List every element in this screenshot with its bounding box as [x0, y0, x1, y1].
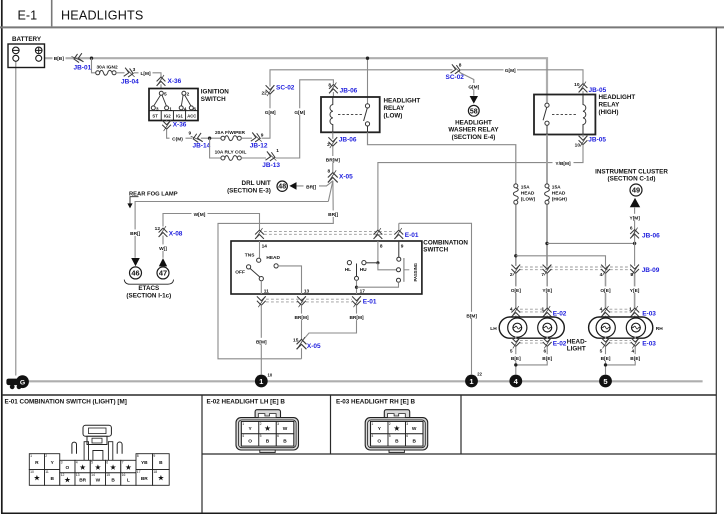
svg-text:(SECTION I-1c): (SECTION I-1c)	[126, 293, 171, 300]
wire label B[B]	[53, 55, 66, 63]
title underline	[0, 26, 724, 28]
wire into ignition switch	[160, 84, 162, 89]
svg-text:X-05: X-05	[307, 343, 321, 350]
connector JB-09 pin 2	[510, 264, 520, 278]
arrow from ETACS 47	[159, 258, 167, 266]
svg-text:ST: ST	[152, 113, 158, 118]
svg-text:B[E]: B[E]	[601, 356, 611, 362]
wire BR[M] terminal 13 to X-05	[301, 305, 303, 339]
relay K2 HEADLIGHT RELAY (HIGH)	[534, 94, 635, 134]
wire O[E] LH low	[515, 274, 517, 309]
svg-text:4: 4	[76, 461, 78, 465]
wire C(M)	[167, 129, 192, 138]
svg-text:4: 4	[600, 272, 603, 278]
wire label W[M]	[192, 210, 208, 218]
svg-text:IG2: IG2	[164, 113, 171, 118]
wire label G[M]	[264, 108, 278, 116]
wire label G[M]	[293, 108, 307, 116]
node high beam branch	[545, 242, 548, 245]
svg-text:E-02: E-02	[553, 340, 567, 347]
node instrument branch	[633, 242, 636, 245]
wire B[E] RH high to ground	[606, 346, 636, 365]
wire to SC-02 riser	[262, 94, 271, 138]
svg-text:E-03: E-03	[642, 310, 656, 317]
svg-text:58: 58	[470, 108, 478, 115]
svg-text:6: 6	[193, 106, 196, 112]
svg-text:G: G	[20, 379, 25, 386]
wire W[]	[162, 236, 164, 258]
svg-text:B: B	[111, 478, 115, 484]
svg-text:G[M]: G[M]	[468, 85, 479, 91]
svg-text:22: 22	[261, 90, 267, 96]
svg-text:PASSING: PASSING	[413, 263, 418, 282]
wire label B[M]	[254, 338, 269, 346]
wire low beam to RH lamp	[516, 256, 606, 266]
svg-text:R: R	[35, 460, 39, 466]
svg-text:JB-06: JB-06	[340, 88, 358, 95]
svg-text:14: 14	[262, 244, 268, 250]
wire branch to rear fog lamp feed	[328, 181, 333, 202]
relay K1 HEADLIGHT RELAY (LOW)	[321, 97, 420, 132]
svg-text:2: 2	[187, 92, 190, 98]
fuse 30A IGN2	[96, 65, 118, 76]
svg-text:(SECTION E-4): (SECTION E-4)	[452, 134, 496, 141]
svg-text:C(M): C(M)	[172, 137, 183, 143]
svg-text:(HIGH): (HIGH)	[599, 109, 619, 116]
svg-text:10: 10	[574, 82, 580, 88]
svg-text:BR[]: BR[]	[130, 231, 141, 237]
combination switch SW2	[231, 239, 468, 294]
svg-text:5: 5	[91, 461, 93, 465]
svg-text:JB-01: JB-01	[74, 65, 92, 72]
connector JB-04 pin 3	[121, 67, 139, 85]
svg-text:(HIGH): (HIGH)	[552, 197, 568, 203]
wire BR[] loop to combination switch	[218, 181, 333, 359]
wire Y[E] RH high	[634, 274, 636, 309]
svg-text:W: W	[96, 478, 101, 484]
svg-text:IG1: IG1	[176, 113, 183, 118]
svg-text:6: 6	[106, 461, 108, 465]
svg-text:E-03: E-03	[642, 340, 656, 347]
connector JB-01	[71, 53, 91, 71]
connector X-05 pin 15	[293, 337, 321, 350]
fuse 15A HEAD (LOW)	[513, 184, 535, 204]
connector SC-02 pin 22	[261, 84, 294, 96]
fuse 10A RLY COIL	[215, 150, 247, 161]
connector E-02 pin 5	[510, 337, 520, 354]
svg-text:10: 10	[268, 372, 273, 377]
svg-text:5: 5	[164, 92, 167, 98]
svg-text:4: 4	[632, 348, 635, 354]
wires into LH lamp	[515, 316, 517, 320]
svg-text:Y[E]: Y[E]	[630, 288, 640, 294]
arrow from instrument cluster	[630, 198, 640, 207]
battery ground wire	[15, 61, 17, 375]
svg-text:6: 6	[277, 434, 279, 438]
svg-text:15: 15	[106, 473, 110, 477]
connector E-01 terminal 8	[374, 228, 383, 239]
svg-text:9: 9	[401, 244, 404, 250]
off-sheet ref 49 instrument cluster	[595, 168, 668, 196]
svg-text:O[E]: O[E]	[600, 288, 611, 294]
svg-text:49: 49	[632, 186, 640, 195]
svg-text:IGNITION: IGNITION	[201, 89, 229, 96]
node: bus tap to ignition fuse	[90, 57, 93, 60]
wire to JB-13	[241, 157, 266, 159]
connector JB-09 pin 5	[630, 264, 660, 278]
off-sheet ref 48 DRL unit	[227, 180, 287, 194]
wire label G[M]	[467, 83, 481, 91]
svg-text:4: 4	[184, 106, 187, 112]
svg-text:20A F/WIPER: 20A F/WIPER	[215, 130, 245, 136]
wire L[M] to ignition switch	[134, 73, 161, 77]
svg-text:E-1: E-1	[18, 9, 38, 23]
left page border	[1, 0, 3, 513]
svg-text:12: 12	[155, 226, 161, 232]
arrow to ETACS 46	[131, 258, 140, 266]
wire label BR[M]	[348, 314, 366, 322]
svg-text:E-02 HEADLIGHT LH [E] B: E-02 HEADLIGHT LH [E] B	[207, 399, 286, 406]
wire into relay coil	[582, 91, 584, 95]
wire low relay output to fuse 15A HEAD(LOW)	[368, 132, 516, 183]
wire W[M] from X-08 to combination switch	[163, 214, 260, 230]
svg-text:RH: RH	[656, 326, 663, 332]
svg-text:O: O	[66, 465, 70, 471]
svg-text:B[E]: B[E]	[542, 356, 552, 362]
svg-text:(SECTION C-1d): (SECTION C-1d)	[608, 176, 656, 183]
node LH ground join	[514, 363, 517, 366]
wire Y[E] LH high	[546, 274, 548, 309]
svg-text:BATTERY: BATTERY	[12, 36, 42, 43]
wire high beam to instrument cluster branch	[547, 242, 635, 244]
fuse 20A F/WIPER	[215, 130, 245, 141]
rear fog lamp callout	[127, 191, 177, 208]
connector E-03 pin 5	[600, 337, 610, 354]
connector JB-06 pin 2 (lower)	[327, 137, 357, 149]
svg-text:X-08: X-08	[169, 231, 183, 238]
svg-text:COMBINATION: COMBINATION	[423, 239, 468, 246]
svg-text:(LOW): (LOW)	[384, 112, 403, 119]
svg-text:4: 4	[600, 306, 603, 312]
svg-text:17: 17	[137, 470, 141, 474]
wire label G[M]	[504, 67, 518, 75]
svg-text:HEADLIGHTS: HEADLIGHTS	[61, 9, 143, 23]
svg-text:15A: 15A	[521, 185, 530, 191]
wire G[M] to headlight relay (low) coil	[276, 80, 334, 158]
svg-text:W[M]: W[M]	[194, 212, 206, 218]
svg-text:8: 8	[137, 454, 139, 458]
svg-text:1: 1	[542, 306, 545, 312]
svg-text:1: 1	[30, 454, 32, 458]
wire branch to headlight washer relay	[460, 72, 474, 95]
svg-text:E-01: E-01	[363, 298, 377, 305]
wire BR[M]	[332, 146, 334, 172]
svg-text:13: 13	[76, 473, 80, 477]
wire below low relay coil	[332, 132, 334, 139]
svg-text:Y[E]: Y[E]	[542, 288, 552, 294]
svg-text:B: B	[159, 460, 163, 466]
svg-text:O: O	[248, 439, 252, 445]
svg-text:SC-02: SC-02	[446, 74, 465, 81]
connector E-01 terminal 17	[352, 296, 377, 307]
headlight RH housing	[589, 317, 664, 338]
svg-text:3: 3	[277, 422, 279, 426]
node: fuse branch	[208, 137, 211, 140]
svg-text:HEAD-: HEAD-	[567, 338, 587, 345]
svg-text:HEAD: HEAD	[266, 255, 280, 261]
bottom page border	[1, 512, 717, 514]
svg-text:7: 7	[541, 272, 544, 278]
svg-text:L: L	[127, 478, 130, 484]
svg-text:LH: LH	[490, 326, 497, 332]
svg-text:JB-06: JB-06	[339, 137, 357, 144]
svg-text:RELAY: RELAY	[384, 105, 406, 112]
svg-text:30A IGN2: 30A IGN2	[97, 65, 118, 71]
wire label L[M]	[139, 69, 153, 77]
svg-text:BR[]: BR[]	[328, 212, 339, 218]
svg-text:3: 3	[156, 106, 159, 112]
connector E-02 pin 6	[543, 337, 567, 354]
svg-text:7: 7	[122, 461, 124, 465]
connector JB-06 pin 6 (instrument)	[630, 226, 660, 240]
connector drawing E-01 combination switch	[72, 425, 122, 460]
wire label BR[M]	[324, 156, 342, 164]
svg-text:B[M]: B[M]	[256, 339, 267, 345]
connector X-36 (lower)	[162, 120, 187, 131]
svg-text:L[M]: L[M]	[140, 71, 151, 77]
svg-text:B[M]: B[M]	[466, 313, 477, 319]
svg-text:5: 5	[630, 272, 633, 278]
wire fuse to JB-04	[116, 72, 124, 74]
svg-text:JB-12: JB-12	[250, 143, 268, 150]
svg-text:10: 10	[30, 470, 34, 474]
connector E-02 pin 4	[510, 306, 520, 317]
wires below lamps	[515, 337, 517, 340]
wire label C(M)	[170, 135, 186, 143]
connector E-03 pin 4 (lower)	[631, 337, 657, 354]
svg-text:9: 9	[189, 131, 192, 137]
svg-text:4: 4	[242, 434, 244, 438]
svg-text:JB-14: JB-14	[193, 143, 211, 150]
svg-text:SWITCH: SWITCH	[201, 96, 226, 103]
wire B[M] from terminal 9 to ground	[399, 223, 472, 374]
connector E-01 terminal 11	[257, 296, 266, 307]
connector row E-01 (top) dashed link	[264, 232, 395, 235]
svg-text:LIGHT: LIGHT	[567, 346, 586, 353]
node low beam branch	[514, 254, 517, 257]
svg-text:O: O	[377, 439, 381, 445]
svg-text:BR[]: BR[]	[306, 184, 317, 190]
svg-text:B[B]: B[B]	[54, 56, 65, 62]
connector X-36 (upper)	[157, 75, 182, 86]
right page border	[715, 27, 717, 513]
svg-text:JB-06: JB-06	[642, 233, 660, 240]
wire label BR[]	[128, 229, 144, 237]
svg-text:17: 17	[360, 288, 366, 294]
svg-text:15: 15	[293, 338, 299, 344]
svg-text:SWITCH: SWITCH	[423, 247, 448, 254]
svg-text:B: B	[266, 439, 270, 445]
svg-text:OFF: OFF	[235, 269, 245, 275]
svg-text:16: 16	[122, 473, 126, 477]
svg-text:10: 10	[575, 142, 581, 148]
wire label Y/B[M]	[553, 159, 574, 167]
svg-text:X-05: X-05	[339, 174, 353, 181]
svg-text:2: 2	[327, 142, 330, 148]
wire label Y[M]	[627, 214, 643, 222]
svg-text:E-01 COMBINATION SWITCH (LIGHT: E-01 COMBINATION SWITCH (LIGHT) [M]	[5, 399, 127, 406]
wire low beam feed down	[515, 205, 517, 266]
svg-text:O[E]: O[E]	[511, 288, 522, 294]
svg-text:(SECTION E-3): (SECTION E-3)	[227, 187, 271, 194]
connector drawing E-03 headlight RH	[365, 410, 428, 453]
node RH ground join	[604, 363, 607, 366]
svg-text:B: B	[50, 476, 54, 482]
wire label BR[]	[304, 183, 320, 191]
connector X-08 pin 12	[155, 226, 183, 238]
wire rear fog feed BR[]	[135, 202, 328, 258]
svg-text:HEADLIGHT: HEADLIGHT	[455, 119, 492, 126]
svg-text:G[M]: G[M]	[294, 110, 305, 116]
fuse 15A HEAD (HIGH)	[545, 184, 568, 204]
svg-text:HL: HL	[345, 267, 351, 273]
wire into low relay coil	[332, 92, 334, 98]
connector JB-09 pin 7	[541, 264, 551, 278]
battery BT1	[8, 36, 45, 68]
svg-text:INSTRUMENT CLUSTER: INSTRUMENT CLUSTER	[595, 168, 668, 175]
connector JB-09 pin 4	[600, 264, 610, 278]
svg-text:22: 22	[477, 371, 482, 376]
connector JB-14 pin 9	[189, 131, 211, 150]
wire G[M] horizontal run to SC-02 pin 8	[270, 70, 453, 87]
svg-text:5: 5	[389, 434, 391, 438]
svg-text:2: 2	[260, 422, 262, 426]
wire label B[M]	[465, 312, 480, 320]
svg-text:6: 6	[406, 434, 408, 438]
wire instrument cluster riser Y[M]	[634, 208, 636, 266]
svg-text:9: 9	[153, 454, 155, 458]
svg-text:5: 5	[600, 348, 603, 354]
wire B[M] terminal 11 to ground	[260, 305, 262, 374]
ground bus	[24, 380, 703, 382]
connector row E-02 (top) dashed link	[520, 309, 631, 312]
ground point 1 (terminal 9)	[465, 371, 483, 387]
wire high beam feed down	[546, 205, 548, 266]
wire G[M] continues to JB-05	[460, 70, 583, 83]
connector row E-01 (bottom) dashed link	[266, 299, 352, 302]
svg-text:JB-09: JB-09	[642, 267, 660, 274]
svg-text:8: 8	[380, 244, 383, 250]
wire: main feed bus B[B] from battery to headlight relay (high)	[45, 58, 548, 103]
connector JB-12 pin 9	[250, 132, 268, 149]
connector E-01 terminal 9	[394, 228, 419, 239]
svg-text:YB: YB	[141, 460, 148, 466]
connector E-03 pin 1	[629, 306, 656, 317]
svg-text:(LOW): (LOW)	[521, 197, 536, 203]
svg-text:Y/B[M]: Y/B[M]	[555, 161, 571, 167]
wire ignition output	[166, 121, 168, 122]
wire B[E] LH high to ground	[516, 346, 547, 365]
wire to fuses	[201, 137, 221, 139]
svg-text:JB-13: JB-13	[262, 162, 280, 169]
svg-text:E-01: E-01	[405, 232, 419, 239]
connector E-01 terminal 13	[297, 296, 306, 307]
wire below X-05 pin 15	[301, 348, 303, 359]
connector E-02 pin 1	[542, 306, 567, 317]
svg-text:JB-05: JB-05	[588, 136, 606, 143]
svg-text:6: 6	[544, 348, 547, 354]
ground symbol G (body ground)	[6, 375, 29, 389]
connector table frame	[2, 395, 717, 513]
arrow to headlight washer relay	[470, 96, 478, 104]
wire to fuse 30A IGN2	[92, 58, 96, 73]
svg-text:B[E]: B[E]	[511, 356, 521, 362]
svg-text:6: 6	[630, 226, 633, 232]
ETACS brace and label	[124, 280, 173, 300]
svg-text:5: 5	[260, 434, 262, 438]
arrow to DRL unit	[289, 182, 296, 190]
svg-text:RELAY: RELAY	[599, 102, 621, 109]
connector E-02 pin cells	[241, 422, 293, 447]
svg-text:3: 3	[406, 422, 408, 426]
wire O[E] RH low	[605, 274, 607, 309]
svg-text:JB-05: JB-05	[589, 87, 607, 94]
svg-text:B: B	[395, 439, 399, 445]
svg-text:46: 46	[131, 269, 139, 278]
connector drawing E-02 headlight LH	[236, 410, 299, 453]
svg-text:BR: BR	[79, 478, 86, 484]
svg-text:HU: HU	[360, 267, 367, 273]
svg-text:ACC: ACC	[187, 113, 196, 118]
svg-text:HEADLIGHT: HEADLIGHT	[599, 94, 636, 101]
wire Y/B[M] to combination switch terminal 8	[378, 145, 583, 230]
wire high relay output to fuse 15A HEAD(HIGH)	[546, 135, 548, 184]
fuse 10A RLY COIL branch wire	[210, 138, 222, 158]
svg-text:1: 1	[169, 106, 172, 112]
title divider	[51, 0, 53, 26]
connector E-01 terminal 14	[255, 228, 264, 239]
svg-text:W[]: W[]	[159, 246, 167, 252]
svg-text:1: 1	[276, 148, 279, 154]
svg-text:5: 5	[510, 348, 513, 354]
ground point 4 (LH lamp)	[509, 375, 522, 388]
svg-text:BR[M]: BR[M]	[349, 315, 364, 321]
svg-text:2: 2	[389, 422, 391, 426]
svg-text:X-36: X-36	[173, 122, 187, 129]
svg-text:G[M]: G[M]	[265, 110, 276, 116]
wire to JB-12	[241, 137, 252, 139]
svg-text:4: 4	[510, 306, 513, 312]
svg-text:48: 48	[278, 184, 286, 191]
svg-text:11: 11	[45, 470, 49, 474]
svg-text:SC-02: SC-02	[276, 84, 295, 91]
svg-text:G[M]: G[M]	[505, 68, 516, 74]
connector JB-06 pin 8 (upper)	[328, 82, 357, 94]
svg-text:BR: BR	[141, 476, 148, 482]
svg-text:1: 1	[371, 422, 373, 426]
wire terminal 9 above box	[398, 223, 400, 230]
svg-text:W: W	[283, 426, 288, 432]
svg-text:BR[M]: BR[M]	[326, 158, 341, 164]
svg-text:13: 13	[304, 288, 310, 294]
connector JB-05 pin 10 (upper)	[574, 82, 606, 94]
svg-text:TNS: TNS	[245, 252, 255, 258]
ground point 1 (terminal 11)	[255, 372, 273, 387]
wire bus tap to low relay contact	[367, 58, 369, 104]
ground point 5 (RH lamp)	[599, 375, 612, 388]
svg-text:WASHER RELAY: WASHER RELAY	[448, 127, 499, 134]
connector row JB-09 dashed link	[520, 267, 631, 270]
